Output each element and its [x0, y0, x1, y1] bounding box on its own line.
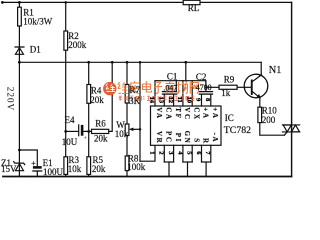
wire chain y=131.4 (E4,R6) [66, 130, 79, 132]
wire pin14 riser [154, 81, 156, 106]
svg-text:GN: GN [183, 131, 191, 145]
capacitor E4 [79, 125, 92, 136]
svg-text:R10: R10 [262, 106, 278, 116]
svg-text:C2: C2 [196, 72, 207, 82]
svg-text:E4: E4 [65, 115, 75, 125]
svg-text:20k: 20k [90, 95, 104, 105]
svg-text:10k/3W: 10k/3W [23, 17, 53, 27]
svg-text:5: 5 [186, 151, 193, 155]
node bus/column C junction [111, 61, 114, 64]
svg-text:3K: 3K [129, 96, 141, 106]
tie pins 4-5 [183, 161, 192, 163]
svg-text:RL: RL [188, 3, 200, 13]
svg-text:2: 2 [158, 151, 165, 155]
wire pin10 riser [191, 81, 193, 106]
tie pins 2-3 [164, 161, 173, 163]
node bus/R7 junction [126, 61, 129, 64]
capacitor E1 electrolytic [33, 166, 42, 176]
svg-text:1: 1 [148, 151, 155, 154]
IC TC782 box [151, 106, 222, 145]
svg-text:+: + [31, 159, 36, 168]
pin 4 stub [182, 145, 184, 162]
relay/load RL [183, 0, 200, 4]
wire column x=19.4 (R1,D1,Z1) [18, 2, 20, 176]
node left input terminal top [1, 1, 4, 4]
svg-text:6: 6 [195, 151, 202, 155]
capacitor C2 [199, 81, 212, 106]
resistor R8 [125, 156, 129, 171]
node E1 branch junction [18, 149, 21, 152]
svg-text:CX: CX [192, 107, 200, 120]
svg-text:R7: R7 [130, 85, 141, 95]
potentiometer W body [125, 124, 129, 135]
wire to IC pin 1 [140, 145, 155, 161]
pin 6 stub [201, 145, 203, 162]
svg-text:R4: R4 [91, 85, 102, 95]
drop pins 2-3 to rail [168, 162, 170, 176]
triac V [282, 125, 299, 135]
wire bottom rail [3, 176, 292, 178]
svg-text:VC: VC [183, 107, 191, 120]
resistor R1 [18, 7, 22, 26]
svg-text:10: 10 [185, 97, 192, 104]
svg-text:11: 11 [176, 97, 183, 103]
resistor R10 [258, 107, 262, 122]
transistor N1 [244, 74, 268, 98]
svg-text:10k: 10k [115, 129, 129, 139]
wire right edge [291, 2, 293, 176]
svg-text:8: 8 [204, 98, 211, 102]
IC pin numbers top [148, 97, 211, 104]
svg-text:10k: 10k [68, 164, 82, 174]
resistor R3 [64, 157, 68, 175]
svg-text:R6: R6 [95, 118, 106, 128]
svg-text:12: 12 [167, 97, 174, 104]
node bus/drop junction [184, 61, 187, 64]
svg-text:IC: IC [225, 113, 234, 123]
node bus left junction [18, 61, 21, 64]
node junction top rail / R2 column [64, 1, 67, 4]
wire R10 to triac gate [260, 123, 285, 136]
svg-text:220V: 220V [5, 87, 15, 111]
resistor R9 [219, 85, 237, 89]
wire wiper column x=140 [139, 62, 141, 161]
svg-text:+A: +A [211, 107, 219, 119]
node chain/column A junction [64, 130, 67, 133]
watermark logo circle [103, 82, 116, 95]
svg-text:200: 200 [262, 115, 276, 125]
svg-text:PI: PI [174, 133, 182, 143]
node junction top rail / R1 column [18, 1, 21, 4]
pin 2 stub [163, 145, 165, 162]
svg-text:.047: .047 [163, 84, 177, 93]
svg-text:200k: 200k [68, 40, 87, 50]
node bus/R4 junction [87, 61, 90, 64]
svg-text:PC: PC [165, 131, 173, 144]
resistor R4 [87, 85, 91, 104]
svg-text:100U: 100U [43, 167, 64, 177]
pin 3 stub [173, 145, 175, 162]
svg-text:100k: 100k [127, 162, 146, 172]
svg-text:20k: 20k [92, 164, 106, 174]
watermark sub text (vector mock) [119, 96, 195, 101]
svg-text:D1: D1 [30, 45, 41, 55]
svg-text:15V: 15V [1, 164, 17, 174]
wire C2 node to R9 [206, 86, 219, 88]
svg-text:TC782: TC782 [224, 125, 251, 136]
IC pin names top row [155, 107, 219, 120]
wire column D x=127 (R7,W,R8) [126, 62, 128, 176]
drop pins 4-5 to rail [187, 162, 189, 176]
svg-text:VA: VA [155, 107, 163, 119]
svg-text:1k: 1k [221, 88, 231, 98]
wire bus drop to feed [185, 62, 187, 80]
wire feed y=80.7 above IC [155, 80, 206, 82]
IC pin numbers bottom [148, 151, 211, 155]
potentiometer W wiper arrow [129, 128, 140, 132]
svg-text:13: 13 [158, 97, 165, 104]
svg-text:4: 4 [176, 151, 183, 155]
wire E1 branch [19, 150, 37, 166]
drop pins 6-7 to rail [205, 162, 207, 176]
node wiper junction [139, 128, 142, 131]
wire column C x=112.2 (bus to R6) [109, 62, 113, 131]
watermark main text (vector mock of 维库电子市场网) [118, 81, 198, 94]
svg-text:R: R [202, 138, 210, 145]
wire top rail [2, 1, 292, 3]
svg-text:CA: CA [165, 107, 173, 120]
wire column A x=65.7 (R2,R3) [65, 2, 67, 176]
wire R9 to base [237, 86, 251, 88]
zener Z1 [14, 162, 25, 171]
resistor R5 [87, 157, 91, 175]
wire main bus y=62 [19, 61, 261, 63]
pin 5 stub [191, 145, 193, 162]
resistor R6 [92, 129, 109, 133]
IC pin names bottom row [155, 131, 219, 145]
resistor R2 [64, 31, 68, 50]
svg-text:9: 9 [195, 98, 202, 102]
node bus/wiper column junction [139, 61, 142, 64]
svg-text:S: S [192, 138, 200, 144]
svg-text:N1: N1 [269, 65, 282, 76]
wire pin11 riser [182, 81, 184, 106]
svg-text:TF: TF [174, 107, 182, 119]
tie pins 6-7 [202, 161, 211, 163]
wire column B x=88.7 (R4,R5) [88, 62, 90, 176]
capacitor C1 [163, 81, 177, 106]
svg-text:10U: 10U [62, 137, 78, 147]
IC bottom pin stubs and ground drops [164, 145, 211, 176]
wire bus corner to N1 top [260, 62, 262, 75]
svg-text:7: 7 [204, 151, 211, 155]
svg-text:+: + [83, 135, 87, 142]
svg-text:4700: 4700 [196, 83, 212, 92]
svg-text:3: 3 [167, 151, 174, 155]
svg-text:R9: R9 [224, 75, 235, 85]
svg-text:-A: -A [211, 133, 219, 144]
svg-text:+A: +A [202, 107, 210, 119]
svg-text:VR: VR [155, 131, 163, 144]
node chain/column B junction [87, 130, 90, 133]
wire N1 emitter down [259, 98, 261, 108]
svg-text:14: 14 [148, 97, 155, 104]
diode D1 [15, 47, 24, 54]
svg-text:C1: C1 [167, 72, 178, 82]
resistor R7 [125, 85, 129, 104]
svg-text:20k: 20k [94, 134, 108, 144]
pin 7 stub [210, 145, 212, 162]
